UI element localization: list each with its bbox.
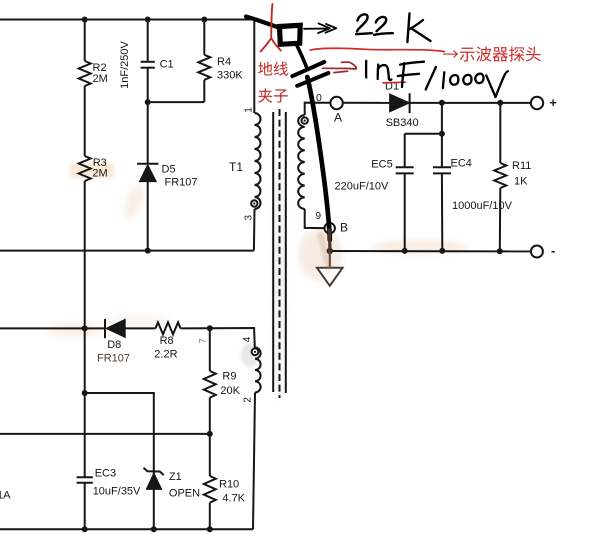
node Z1 feed — [82, 390, 88, 396]
resistor R8 — [156, 322, 181, 334]
svg-text:2M: 2M — [92, 168, 107, 180]
smudge artifacts — [47, 160, 468, 400]
wire output minus rail — [330, 250, 531, 252]
wire T1 pin2 lead — [253, 393, 255, 530]
label ground-clip (red) — [258, 62, 288, 76]
probe clip square — [280, 25, 301, 44]
label Z1 — [169, 471, 200, 500]
svg-text:1: 1 — [243, 107, 254, 113]
svg-text:220uF/10V: 220uF/10V — [335, 181, 389, 193]
wire rail to R4 — [203, 20, 205, 55]
wire D8 to R8 — [125, 327, 155, 329]
resistor R9 — [204, 371, 216, 398]
diode D5 — [137, 164, 158, 182]
svg-text:OPEN: OPEN — [169, 488, 200, 500]
diode D1 SB340 — [390, 93, 410, 113]
resistor R3 — [79, 156, 91, 181]
transformer T1 secondary winding — [298, 115, 305, 209]
probe shadow streak — [320, 232, 330, 271]
node EC4 top — [439, 100, 445, 106]
svg-text:1K: 1K — [514, 176, 528, 188]
capacitor EC4 — [433, 167, 451, 173]
probe wire tail — [327, 230, 331, 253]
svg-text:4: 4 — [242, 336, 253, 342]
red annotation line to probe label — [310, 48, 446, 51]
capacitor C1 — [141, 61, 155, 63]
node R9/R10 divider — [207, 431, 213, 437]
svg-text:7: 7 — [198, 338, 208, 343]
handwritten 1nF/1000V — [366, 61, 508, 97]
wire secondary pin9 lead to node B — [305, 209, 325, 228]
T1 primary phase dot — [251, 200, 257, 206]
diode D8 — [105, 319, 125, 338]
wire top rail — [0, 19, 254, 21]
wire node B to output minus rail — [329, 233, 331, 251]
wire aux node to T1 pin4 — [210, 328, 255, 348]
svg-text:R8: R8 — [160, 335, 174, 347]
wire Z1 lower lead — [153, 489, 155, 529]
wire D5 to snubber return — [147, 181, 149, 250]
T1 secondary phase dot — [302, 117, 308, 123]
resistor R4 — [198, 55, 210, 80]
svg-text:SB340: SB340 — [386, 117, 419, 129]
wire bottom rail — [0, 528, 253, 530]
label D8 — [97, 339, 130, 365]
svg-text:Z1: Z1 — [169, 471, 182, 483]
hand arrow 1 — [304, 23, 336, 33]
wire node A to diode D1 — [343, 102, 390, 104]
wire R8 to aux node — [181, 327, 210, 329]
svg-text:9: 9 — [316, 211, 322, 222]
svg-text:EC4: EC4 — [451, 158, 472, 170]
T1 aux phase dot — [252, 348, 259, 355]
node snubber return — [145, 248, 151, 254]
wire Z1 feed horizontal — [85, 393, 154, 474]
svg-text:R10: R10 — [219, 479, 239, 491]
node aux / R9 — [207, 325, 213, 331]
wire ground stub — [329, 251, 331, 268]
node output minus junction — [327, 248, 333, 254]
node EC5 bottom — [402, 248, 408, 254]
red clip tick mark — [261, 4, 281, 52]
node bottom rail / EC3 — [82, 526, 88, 532]
svg-text:-: - — [551, 243, 555, 258]
wire EC3 to bottom rail — [84, 483, 86, 530]
resistor R11 — [494, 163, 506, 188]
wire EC4 branch upper — [441, 103, 443, 167]
svg-text:D8: D8 — [107, 339, 121, 351]
probe capacitor plate lower — [297, 73, 328, 86]
transformer T1 aux winding — [255, 348, 261, 393]
wire D8 node to Z1 feed node — [84, 328, 86, 393]
svg-text:B: B — [340, 221, 348, 235]
node top rail / R2 — [82, 17, 88, 23]
wire R9 lower lead — [209, 398, 211, 434]
svg-text:EC5: EC5 — [371, 159, 392, 171]
resistor R2 — [79, 61, 91, 86]
wire EC5 upper lead — [404, 134, 406, 167]
wire Z1 feed node to EC3 — [84, 393, 86, 477]
wire R9 upper lead — [209, 328, 211, 371]
label R9 — [220, 371, 240, 398]
probe clip entry stroke — [246, 17, 280, 29]
node R3 line / D8 wire — [82, 325, 88, 331]
wire C1 to snubber node — [147, 68, 149, 102]
svg-text:+: + — [550, 96, 557, 110]
svg-text:EC3: EC3 — [95, 468, 116, 480]
label EC3 — [93, 468, 141, 498]
svg-text:T1: T1 — [229, 160, 243, 174]
transformer T1 primary winding — [255, 113, 261, 209]
svg-text:R11: R11 — [512, 160, 531, 172]
wire R11 lower lead — [499, 188, 502, 251]
svg-text:3: 3 — [243, 214, 254, 220]
wire EC5 stub — [405, 133, 442, 135]
svg-text:D5: D5 — [162, 164, 176, 176]
svg-text:FR107: FR107 — [97, 353, 130, 365]
label R10 — [219, 479, 246, 505]
svg-text:R9: R9 — [222, 371, 236, 383]
probe capacitor plate upper — [292, 62, 324, 76]
wire T1 pin3 lead — [253, 209, 256, 251]
wire R3 down to D8 node — [84, 181, 86, 328]
wire R11 upper lead — [499, 103, 501, 163]
svg-text:10uF/35V: 10uF/35V — [93, 486, 141, 498]
svg-text:A: A — [334, 111, 342, 125]
svg-text:2.2R: 2.2R — [154, 349, 177, 361]
capacitor EC5 — [396, 167, 414, 173]
node EC4 bottom — [439, 248, 445, 254]
wire EC5 lower lead — [404, 173, 406, 250]
node R11 top — [497, 100, 503, 106]
wire T1 pin1 lead — [253, 20, 255, 114]
wire D1 to plus terminal — [410, 102, 531, 104]
node top rail / R4 — [201, 17, 207, 23]
node B terminal circle — [325, 223, 335, 233]
wire rail to R2 — [84, 20, 86, 62]
handwritten 22k — [356, 14, 431, 43]
probe wire upper — [296, 44, 306, 68]
transformer core — [273, 109, 286, 398]
node snubber C1/R4/D5 — [145, 99, 151, 105]
svg-text:330K: 330K — [217, 70, 243, 82]
svg-text:1nF/250V: 1nF/250V — [119, 40, 131, 88]
svg-text:2: 2 — [242, 397, 253, 403]
wire R10 lower lead — [209, 503, 211, 530]
label R2 — [93, 62, 108, 85]
svg-text:FR107: FR107 — [165, 177, 198, 189]
svg-text:R4: R4 — [217, 56, 231, 68]
svg-text:2M: 2M — [93, 73, 108, 85]
wire snubber node to D5 — [147, 102, 149, 164]
wire snubber node to R4 bottom — [148, 101, 205, 103]
label R3 — [92, 157, 107, 180]
wire R4 to snubber wire — [203, 80, 205, 102]
resistor R10 — [204, 476, 216, 503]
svg-text:20K: 20K — [220, 385, 240, 397]
label oscilloscope probe (red) — [443, 46, 540, 61]
wire secondary pin0 lead to node A — [305, 103, 331, 115]
wire EC4 lower lead — [441, 173, 443, 250]
wire snubber return rail — [0, 250, 254, 252]
label D5 — [162, 164, 198, 189]
label R4 — [217, 56, 243, 82]
node bottom rail / Z1 — [151, 526, 157, 532]
wire rail to C1 — [147, 20, 149, 62]
terminal plus — [531, 97, 543, 109]
probe wire body — [307, 77, 330, 240]
wire divider feed from left edge — [0, 433, 210, 435]
ground — [317, 268, 343, 286]
svg-text:1000uF/10V: 1000uF/10V — [452, 200, 513, 212]
capacitor EC3 — [77, 476, 93, 478]
svg-text:1A: 1A — [0, 490, 11, 502]
node top rail / C1 — [145, 17, 151, 23]
wire R2 to R3 — [84, 86, 86, 156]
hand arrow 2 — [323, 62, 357, 73]
terminal minus — [531, 246, 543, 258]
node R11 bottom — [497, 248, 503, 254]
wire D8 input from left edge — [0, 327, 105, 329]
zener Z1 — [144, 468, 164, 490]
node A terminal circle — [330, 97, 342, 109]
svg-text:0: 0 — [316, 92, 322, 104]
node bottom rail / R10 — [207, 526, 213, 532]
label R11 — [512, 160, 531, 188]
wire R10 upper lead — [209, 434, 211, 476]
label R8 — [154, 335, 177, 361]
svg-text:4.7K: 4.7K — [222, 493, 245, 505]
svg-text:C1: C1 — [160, 59, 174, 71]
node EC5 stub / EC4 — [439, 131, 445, 137]
